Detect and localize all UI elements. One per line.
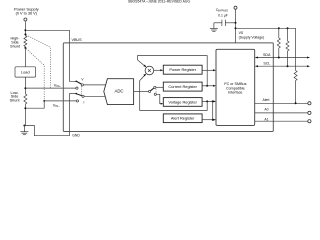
- svg-text:Alert: Alert: [263, 98, 270, 102]
- svg-text:SCL: SCL: [263, 61, 270, 65]
- wire: SCL: [256, 65, 308, 67]
- node: SCL pull-up tap: [287, 27, 289, 29]
- node: voltage loop tap: [206, 100, 208, 102]
- terminal: power supply: [24, 18, 27, 21]
- svg-text:Shunt: Shunt: [10, 98, 21, 102]
- svg-text:ADC: ADC: [114, 89, 123, 94]
- dashed linkage: [80, 86, 82, 95]
- wire to current register: [156, 86, 163, 88]
- dashed linkage: [155, 89, 157, 93]
- wire: voltage to alert link: [212, 101, 214, 119]
- voltage register: [163, 98, 202, 107]
- node: alert link tap: [212, 100, 214, 102]
- svg-text:Current Register: Current Register: [168, 84, 197, 89]
- multiplier circle: [145, 66, 154, 75]
- wire: voltage loop to multiplier: [140, 75, 208, 110]
- switch: bus voltage select (V): [75, 77, 106, 95]
- node: VBUS throw: [75, 81, 77, 83]
- svg-text:Alert Register: Alert Register: [171, 116, 195, 121]
- common circle: [81, 84, 83, 86]
- wire: multiplier to power register: [154, 69, 161, 71]
- wire: ground return to GND pin: [24, 126, 69, 136]
- node: low-side bottom junction: [24, 107, 26, 109]
- capacitor C_BYPASS: [214, 20, 236, 26]
- lever: [76, 81, 81, 84]
- node: supply junction: [24, 29, 26, 31]
- node: ground junction: [23, 125, 25, 127]
- wire: VIN+: [25, 87, 75, 89]
- terminal: A1: [308, 120, 311, 123]
- svg-text:Power Register: Power Register: [169, 67, 196, 72]
- label: High-Side Shunt: [10, 37, 21, 49]
- wire: load to low-side shunt: [24, 77, 26, 94]
- throw circle: to voltage register: [154, 93, 156, 95]
- svg-text:CBYPASS: CBYPASS: [216, 8, 229, 13]
- lever: [151, 88, 155, 91]
- arrowhead SDA right: [307, 57, 310, 59]
- svg-text:Voltage Register: Voltage Register: [168, 99, 197, 104]
- arrowhead into multiplier (bottom-left): [143, 74, 146, 77]
- switch: shunt current select (I): [70, 93, 106, 132]
- throw circle: VIN-: [76, 100, 78, 102]
- arrowhead into power register: [160, 69, 163, 71]
- wire: current loop to multiplier: [138, 56, 208, 86]
- wire: alert register to interface: [202, 119, 214, 121]
- node: SDA pull-up tap: [278, 27, 280, 29]
- node: throw: [75, 93, 77, 95]
- terminal: VS supply: [234, 6, 237, 9]
- wire: current register to interface: [202, 85, 214, 87]
- wire: Alert: [255, 102, 308, 104]
- IC box (INA226): [63, 43, 273, 132]
- svg-text:0.1 µF: 0.1 µF: [218, 14, 228, 18]
- terminal: A0: [308, 111, 311, 114]
- node: alert wire junction: [212, 119, 214, 121]
- svg-text:A0: A0: [264, 108, 268, 112]
- arrowhead into multiplier (top-left): [144, 65, 147, 68]
- wire: voltage register to interface: [202, 100, 214, 102]
- svg-text:GND: GND: [72, 134, 80, 138]
- op-amp/ADC block: [104, 79, 134, 105]
- ground: [20, 126, 28, 135]
- label: Low-Side Shunt: [10, 91, 21, 102]
- svg-text:Interface: Interface: [228, 90, 242, 94]
- common circle: [82, 95, 84, 97]
- resistor: high-side shunt: [24, 36, 27, 47]
- svg-text:VBUS: VBUS: [72, 38, 83, 42]
- wire: VBUS rail to box: [25, 30, 69, 43]
- wire: VS drop into box: [235, 9, 237, 43]
- wire: ADC output: [134, 90, 149, 92]
- node: Alert pull-up junction: [295, 102, 297, 104]
- node: cap junction: [235, 22, 237, 24]
- common circle: [149, 90, 151, 92]
- label: Power Supply: [14, 7, 39, 16]
- wire: shunt to load: [24, 47, 26, 67]
- lever: [76, 94, 82, 96]
- resistor: SCL pull-up: [286, 28, 289, 66]
- resistor: Alert pull-up: [294, 28, 297, 103]
- node: dashed VIN+ tap: [24, 33, 26, 35]
- wire: gnd ref stub: [70, 94, 76, 132]
- svg-text:SBOS547A –JUNE 2011–REVISED AU: SBOS547A –JUNE 2011–REVISED AUG: [128, 0, 190, 4]
- I2C interface box: [216, 49, 255, 125]
- ground (bypass cap): [210, 23, 218, 32]
- terminal: Alert: [308, 102, 311, 105]
- svg-text:Load: Load: [21, 70, 30, 75]
- arrowhead into voltage register: [161, 103, 164, 105]
- switch: ADC demux: [149, 86, 164, 104]
- svg-text:(Supply Voltage): (Supply Voltage): [239, 35, 265, 39]
- wire: SDA: [256, 57, 308, 59]
- node: low-side top junction: [24, 87, 26, 89]
- dashed wire: high-side VIN- route: [26, 49, 44, 101]
- node: current loop tap: [206, 85, 208, 87]
- dashed wire: high-side VIN+ route: [26, 35, 50, 88]
- wire: low-side bottom: [24, 104, 26, 126]
- svg-text:A1: A1: [264, 117, 268, 121]
- svg-text:SDA: SDA: [263, 53, 271, 57]
- wire: VS pull-up rail: [236, 27, 296, 29]
- node: SCL pull-up junction: [287, 65, 289, 67]
- node: SDA pull-up junction: [278, 57, 280, 59]
- resistor: low-side shunt: [24, 94, 27, 104]
- wire: VIN-: [25, 101, 76, 108]
- node: VS rail junction: [235, 27, 237, 29]
- throw circle: VIN+: [76, 87, 78, 89]
- node: VIN- corner junction: [43, 100, 45, 102]
- arrowhead SCL left: [255, 65, 258, 67]
- svg-text:Shunt: Shunt: [10, 45, 21, 49]
- load box: [15, 67, 36, 77]
- wire to voltage register: [156, 94, 161, 103]
- wire: supply drop: [24, 21, 26, 36]
- wire: A0: [255, 112, 308, 114]
- throw circle: to current register: [154, 86, 156, 88]
- svg-text:I: I: [83, 100, 84, 104]
- current register: [163, 82, 202, 91]
- arrowhead SCL right: [307, 65, 310, 67]
- wire: VBUS inside box: [69, 43, 76, 81]
- svg-text:(0 V to 36 V): (0 V to 36 V): [16, 12, 38, 16]
- alert register: [163, 114, 202, 123]
- wire: power register to interface: [202, 69, 214, 71]
- power register: [163, 65, 202, 74]
- wire: A1: [255, 120, 308, 122]
- wire to ADC: [83, 84, 106, 86]
- wire to ADC: [84, 95, 105, 97]
- resistor: SDA pull-up: [277, 28, 280, 57]
- node: shunt bottom junction: [24, 47, 26, 49]
- arrowhead SDA left: [255, 57, 258, 59]
